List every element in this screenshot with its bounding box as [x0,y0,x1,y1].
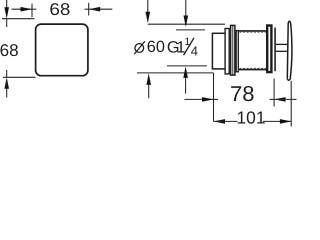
left 68 dimension: top tail wire [6,0,8,14]
thread label: diameter symbol circle [135,44,144,53]
top 68 dimension: left tail wire [12,8,33,10]
thread crest bottom line [239,69,267,71]
small shoulder step [236,31,238,72]
diameter 60 bottom reference line C [137,72,214,74]
diameter 60 leader: bottom tail wire [148,83,150,98]
G1-1/4 leader: top drop wire [185,0,187,17]
G1-1/4 leader: top arrowhead [184,16,189,28]
left 68 dimension: bottom tail wire [6,82,8,98]
78 dimension: right stub [270,98,275,100]
right extension line of 101 [290,81,292,127]
right extension line of 78 [273,79,275,107]
thread root top dashed line [240,31,267,33]
svg-text:68: 68 [49,0,70,19]
diameter 60 leader: bottom arrowhead [146,73,151,85]
seal washer disc [274,28,276,72]
G1-1/4 leader: bottom tail wire [185,76,187,94]
left 68 dimension: bottom extension line [3,76,36,78]
left 68 dimension: upper stub [6,19,8,27]
101 dimension: right line [263,120,291,122]
left 68 dimension: lower stub [6,70,8,77]
top 68 dimension: right extension line [88,3,90,16]
78 dimension: left arrowhead [202,97,214,102]
G1-1/4 leader: bottom arrowhead [183,66,188,78]
flange disc [267,26,271,73]
101 dimension: left arrowhead [214,119,226,124]
svg-text:101: 101 [237,108,266,128]
top 68 dimension: right stub [85,8,89,10]
tailpiece tube bottom edge [212,68,225,70]
top 68 dimension: left arrowhead [21,7,33,12]
101 dimension: right arrowhead [280,119,292,124]
left extension line of 78 and 101 [213,73,215,122]
svg-text:4: 4 [191,43,198,58]
diameter 60 leader: top arrowhead [146,12,151,23]
svg-text:78: 78 [230,82,255,106]
hex nut inner line [232,25,234,75]
collar step [225,29,229,74]
top 68 dimension: right arrowhead [89,7,101,12]
thread label: fraction slash [184,38,194,55]
thread crest top line [239,30,267,32]
78 dimension: right tail wire [274,98,296,100]
push stem bottom edge [276,50,288,52]
G1-1/4 bottom reference line B' [167,65,207,67]
G1-1/4 top reference line B [176,29,205,31]
svg-text:68: 68 [0,41,19,60]
top 68 dimension: left extension line [31,4,33,18]
hex nut ring [231,25,235,75]
tailpiece tube left edge [211,33,213,70]
diameter 60 top reference line A [148,23,225,25]
78 dimension: left stub [214,98,219,100]
push stem top edge [276,43,288,45]
78 dimension: left tail wire [184,98,213,100]
tailpiece tube top edge [212,32,225,34]
button cap side profile [287,21,292,80]
left 68 dimension: top arrowhead [4,7,9,19]
101 dimension: left line [214,120,238,122]
svg-text:60: 60 [147,38,165,56]
thread label: diameter symbol slash [134,41,145,54]
left 68 dimension: bottom arrowhead [4,77,9,89]
square cap front view (68x68) [36,24,88,76]
top 68 dimension: left stub [32,8,36,10]
left 68 dimension: top extension line [2,18,35,20]
78 dimension: right arrowhead [274,97,286,102]
diameter 60 leader: top drop wire [147,0,149,14]
thread root bottom dashed line [240,67,267,69]
top 68 dimension: right tail wire [89,8,113,10]
